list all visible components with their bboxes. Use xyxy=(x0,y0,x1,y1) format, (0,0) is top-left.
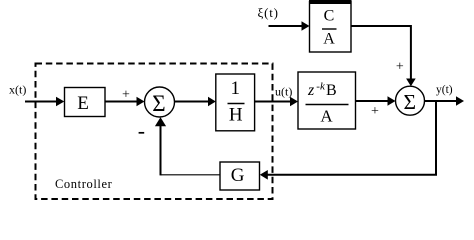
minus sign at S1 bottom input xyxy=(139,132,145,134)
svg-text:H: H xyxy=(229,105,243,126)
wire S2 output to y(t) xyxy=(425,100,458,102)
svg-text:A: A xyxy=(320,107,333,126)
svg-text:+: + xyxy=(122,88,130,103)
block z^-k B / A (plant) xyxy=(298,72,356,129)
block C/A (noise filter) xyxy=(310,2,352,53)
wire C/A to S2 top xyxy=(352,26,411,80)
wire plant to summer S2 xyxy=(356,100,389,102)
dashed controller boundary box xyxy=(36,64,273,200)
svg-text:y(t): y(t) xyxy=(436,84,453,96)
wire 1/H to plant block, node u(t) xyxy=(255,101,291,103)
wire up into S1 bottom xyxy=(160,126,162,176)
wire G output left xyxy=(161,174,221,176)
svg-text:Σ: Σ xyxy=(403,90,416,114)
block 1/H xyxy=(216,74,255,131)
svg-text:-k: -k xyxy=(316,81,326,93)
wire x(t) input arrow into E xyxy=(25,101,57,103)
svg-text:ξ(t): ξ(t) xyxy=(258,5,279,20)
svg-text:Controller: Controller xyxy=(55,177,113,191)
svg-text:+: + xyxy=(396,60,404,75)
wire xi(t) arrow into C/A xyxy=(269,25,303,27)
svg-text:B: B xyxy=(326,82,337,99)
summing junction S2 xyxy=(396,86,425,115)
svg-text:x(t): x(t) xyxy=(9,83,26,97)
svg-text:1: 1 xyxy=(231,78,241,99)
svg-text:Σ: Σ xyxy=(152,91,165,116)
block G xyxy=(220,162,260,190)
wire E to summer S1 xyxy=(106,101,138,103)
svg-text:+: + xyxy=(371,104,379,119)
wire feedback from output down and left into G xyxy=(267,101,436,175)
svg-text:A: A xyxy=(323,31,335,48)
svg-text:E: E xyxy=(77,93,89,114)
summing junction S1 xyxy=(145,87,175,117)
svg-text:C: C xyxy=(324,8,335,25)
svg-text:z: z xyxy=(307,82,315,99)
block E xyxy=(65,88,106,117)
svg-text:G: G xyxy=(231,165,245,186)
wire S1 to 1/H block xyxy=(175,101,209,103)
svg-text:u(t): u(t) xyxy=(275,85,292,99)
